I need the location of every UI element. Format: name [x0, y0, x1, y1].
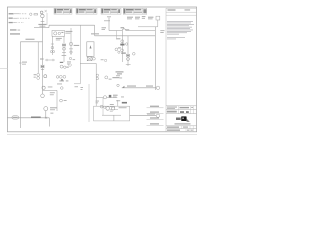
drain valve X1 [87, 57, 95, 61]
title block row D [167, 129, 193, 132]
pipe under vessel [80, 62, 96, 64]
tap above jump [121, 27, 125, 28]
bold tag V8 [120, 44, 124, 46]
line label L1 [9, 13, 27, 14]
suction stub [102, 98, 104, 116]
revision table D [123, 8, 147, 14]
bold tag on H8 [109, 95, 112, 98]
cross pipe H8 [96, 97, 117, 99]
signal stem x47 [46, 13, 48, 25]
tag near gauge [64, 99, 67, 102]
instrument PI-01 [40, 11, 43, 14]
signature row 4 [147, 123, 164, 125]
gauge right V8 [125, 43, 127, 45]
revision table A [54, 8, 72, 14]
drain cross [45, 117, 47, 119]
line tag oval [12, 116, 19, 119]
tag near V12 [40, 59, 44, 60]
tags left of V10 [81, 86, 84, 89]
riser to H2 [48, 25, 50, 27]
tag V6 [75, 85, 79, 88]
cluster labels [57, 80, 68, 84]
gauge V5c [69, 64, 72, 67]
gauge V5b [69, 57, 71, 59]
pumps in skid [106, 107, 115, 111]
tie line [45, 59, 55, 61]
signature row 3 [147, 117, 164, 119]
vessel T-1 [87, 42, 94, 57]
tag pair upper [101, 58, 104, 61]
instrument cluster mid [56, 65, 66, 78]
valve actuator V1 [41, 14, 44, 17]
label right of AE-1 [65, 31, 72, 34]
border frame [7, 7, 196, 132]
drop V7 [95, 63, 97, 106]
pump P-1 circle [44, 107, 57, 118]
sheet edge line bottom [7, 134, 197, 136]
label under V1 [38, 24, 46, 27]
line labels top [127, 16, 153, 19]
cluster tag 2 [66, 67, 69, 68]
elbow V6 [74, 83, 80, 85]
labels near V14 [48, 87, 55, 96]
drop V14 [56, 90, 58, 111]
sample line V5 [69, 28, 73, 55]
tags left of V13 [34, 74, 37, 77]
stub to gauges [115, 31, 117, 39]
title block row B [167, 110, 194, 114]
line label L4 [10, 29, 20, 30]
vessel top label [91, 33, 99, 34]
tag under gauges [121, 53, 126, 54]
outgoing line H5 [122, 86, 160, 90]
header pipe H4b with jump [109, 29, 155, 31]
dash left V8 [118, 47, 121, 48]
gauge v9 [133, 53, 136, 56]
title block row A [167, 106, 193, 110]
skid internal line [102, 115, 121, 121]
line label L3 [9, 22, 24, 23]
gauge V14a [61, 87, 64, 90]
sample line V4 [62, 36, 66, 62]
branch at 90 [43, 89, 58, 91]
gauges above skid [100, 105, 103, 108]
check valve symbol [30, 13, 38, 15]
wire stem V1 [41, 18, 43, 22]
header pipe H1 [34, 27, 49, 29]
branch H7 [20, 41, 42, 43]
gauge near V14 [60, 99, 63, 102]
gauge upper [104, 59, 106, 61]
branch pipe V13 [37, 42, 40, 80]
header pipe H4a [138, 26, 158, 28]
node tick [41, 20, 45, 22]
drop pipe V1m [94, 25, 96, 36]
riser V6 [79, 25, 81, 83]
main riser V2 [154, 27, 156, 90]
sample line V3 [50, 36, 54, 55]
pump skid box [94, 106, 130, 121]
header pipe H3 [95, 35, 156, 37]
revision table C [101, 8, 121, 14]
header pipe H2 [49, 24, 95, 26]
aux pipe V10 [88, 84, 90, 122]
node tag left of notes [160, 30, 164, 33]
small labels under H8 [96, 101, 100, 104]
cluster dark tag [60, 62, 63, 63]
label V4 [62, 54, 67, 57]
vent tick [45, 10, 47, 12]
label right H8 [113, 95, 118, 98]
small inst [117, 84, 119, 86]
bottom feed line [7, 117, 49, 119]
line label L2 [9, 18, 30, 19]
company logo [176, 116, 190, 122]
label V5 [74, 45, 80, 46]
signature row 2 [147, 111, 164, 113]
fold mark left [0, 67, 7, 69]
tie ticks [47, 59, 53, 61]
notes paragraph 1 [167, 21, 194, 34]
stack labels [116, 29, 129, 39]
logo caption [175, 123, 191, 124]
tick labels on V11 [19, 62, 27, 65]
pump gauge on H8 [103, 96, 106, 99]
notes paragraph 2 [167, 37, 185, 39]
bold line label [31, 117, 41, 119]
title block row C [167, 126, 193, 129]
tags near N1 [102, 20, 111, 30]
skid inner labels [110, 107, 127, 111]
labels mid right [116, 71, 124, 78]
notes header cell [166, 8, 196, 15]
label FI-7 [109, 77, 120, 80]
cluster dashes right [67, 61, 71, 64]
tag V5b [73, 58, 76, 61]
drop to drain [48, 118, 50, 127]
gauge V8b [121, 49, 124, 52]
utility box U1 [156, 16, 160, 20]
stem from U1 [157, 20, 159, 27]
valves on V7 [96, 74, 98, 80]
notes column divider [165, 8, 167, 132]
instrument stack V8 [121, 31, 124, 63]
instrument FI-7 [105, 76, 108, 79]
analyser box AE-1 [52, 31, 65, 37]
outgoing line H6 [130, 113, 160, 117]
label above H7 [26, 39, 35, 40]
left long pipe V11 [19, 42, 21, 128]
revision table B [76, 8, 97, 14]
vent flag N1 [107, 17, 111, 31]
title block frame [166, 106, 196, 129]
signature row 1 [147, 106, 164, 108]
gauges near stack [115, 48, 120, 53]
label under AE-1 [56, 38, 62, 41]
line label L5 [10, 33, 20, 34]
cluster tag 3 [61, 79, 63, 80]
stack V9 [126, 36, 131, 66]
tag at drain top [50, 112, 53, 115]
labels above skid [110, 97, 127, 110]
main down pipe V12 [41, 21, 47, 97]
